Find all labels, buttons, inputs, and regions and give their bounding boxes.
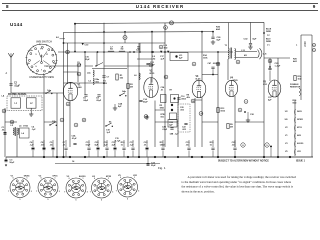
capacitor C7 [64, 147, 67, 149]
wire horizontal [5, 121, 17, 123]
capacitor R15 [211, 147, 214, 149]
terminal 9 [238, 108, 242, 112]
svg-text:8Ω: 8Ω [110, 49, 113, 51]
frame aerial dashed box [7, 96, 42, 111]
ground below L2 [30, 112, 32, 114]
svg-text:5: 5 [48, 199, 49, 201]
junction dot bus1 right [263, 32, 265, 34]
capacitor C18 [105, 147, 108, 149]
svg-text:6LD20: 6LD20 [79, 176, 86, 178]
wire horizontal [195, 99, 202, 101]
capacitor C4 [32, 148, 35, 149]
svg-text:7: 7 [36, 191, 37, 193]
diode mark 2 [167, 51, 169, 53]
svg-text:140Ω: 140Ω [160, 143, 165, 146]
screen feed wire [64, 42, 166, 44]
svg-text:1: 1 [82, 178, 83, 180]
resistor R13 [217, 108, 219, 113]
terminal 12 [10, 120, 14, 124]
capacitor C13 [146, 62, 149, 64]
grid boxes V3 [161, 95, 167, 103]
capacitor C17 [131, 147, 134, 149]
terminal 1b [244, 100, 248, 104]
terminal 1b v1 [77, 72, 81, 76]
svg-text:0: 0 [120, 177, 121, 179]
svg-text:U144: U144 [10, 22, 23, 27]
switch S1a arm [45, 93, 46, 94]
svg-text:A prevalent volt meter was use: A prevalent volt meter was used for taki… [188, 175, 297, 179]
svg-text:2Ω: 2Ω [153, 58, 156, 60]
mains terminal 2 [312, 43, 315, 46]
terminal 13 [216, 62, 220, 66]
capacitor C7 [102, 75, 105, 77]
wire grid elbow [104, 65, 150, 67]
diode mark 1 [160, 51, 162, 53]
svg-text:50pF: 50pF [143, 101, 148, 103]
valve V3 [192, 80, 206, 98]
dial lamp 2 [123, 36, 127, 40]
svg-text:9: 9 [313, 4, 316, 9]
svg-text:0: 0 [13, 178, 14, 180]
svg-text:0: 0 [69, 178, 70, 180]
valve base diagram V1 [10, 178, 30, 198]
wire osc link [137, 58, 152, 60]
terminal 4b [164, 26, 168, 30]
wire vertical [234, 96, 236, 147]
wire vertical [84, 52, 86, 95]
wire vertical [4, 108, 6, 157]
svg-text:7: 7 [41, 70, 42, 72]
capacitor C16 [177, 97, 180, 99]
valve base diagram V4 [92, 178, 112, 198]
svg-text:1: 1 [26, 178, 27, 180]
wire horizontal [301, 34, 312, 36]
wire vertical [217, 52, 219, 157]
wire vertical [151, 32, 153, 83]
valve base diagram V5 [118, 177, 138, 197]
svg-text:to the medium wave band and op: to the medium wave band and operating un… [182, 179, 292, 184]
coil L7 [108, 51, 114, 52]
wire horizontal [155, 109, 165, 111]
capacitor C26 8uF [212, 31, 214, 37]
capacitor C2 [9, 83, 12, 85]
valve V1 [63, 82, 77, 100]
svg-text:SPKR: SPKR [297, 119, 303, 121]
wire vertical [63, 43, 65, 157]
box L4 [20, 128, 30, 138]
switch arm 14a2 [95, 65, 96, 66]
svg-text:175Ω: 175Ω [23, 126, 28, 128]
resistor R14 [294, 76, 296, 81]
wire vertical [227, 59, 229, 80]
wire vertical [164, 23, 166, 147]
ground mid [114, 106, 116, 108]
wire vertical [277, 58, 279, 157]
switch contacts [52, 60, 54, 62]
svg-text:W/B SWITCH: W/B SWITCH [36, 40, 52, 44]
wire vertical [154, 101, 156, 148]
svg-text:240V: 240V [297, 110, 302, 113]
svg-text:3: 3 [112, 191, 113, 193]
svg-text:WIRE: WIRE [266, 41, 272, 43]
svg-text:11: 11 [46, 54, 48, 56]
svg-text:3: 3 [31, 191, 32, 193]
terminal 6c [149, 63, 153, 67]
wire vertical [96, 52, 98, 66]
wire L2 to ground [30, 108, 32, 112]
svg-text:5: 5 [127, 199, 128, 201]
svg-text:60Ω: 60Ω [293, 102, 297, 104]
wire vertical [194, 98, 196, 147]
svg-text:1MΩ: 1MΩ [160, 107, 165, 109]
wire horizontal [155, 121, 178, 123]
terminal 7 [199, 112, 203, 116]
capacitor R10 [122, 147, 125, 149]
terminal 16 [66, 50, 70, 54]
coils L3 L4 [13, 128, 14, 135]
wire vertical [43, 75, 45, 151]
wire vertical [103, 23, 105, 147]
wire vertical [311, 35, 313, 157]
svg-text:S3: S3 [32, 72, 34, 74]
coil L4a [93, 70, 94, 77]
switch S4a arm [119, 95, 120, 96]
component row wire [58, 51, 233, 53]
wire horizontal [44, 121, 57, 123]
svg-text:ISSUE 1: ISSUE 1 [296, 160, 306, 162]
wavechange switch circle S1 [26, 44, 56, 74]
heater wire [55, 163, 160, 165]
svg-text:6F15: 6F15 [53, 176, 59, 178]
coil L8 [119, 51, 125, 52]
capacitor C23 [146, 148, 149, 149]
svg-text:17: 17 [40, 56, 42, 58]
wire horizontal [85, 65, 93, 67]
svg-text:3: 3 [138, 190, 139, 192]
terminal 15 [144, 115, 148, 119]
svg-text:.01µF: .01µF [162, 129, 168, 131]
svg-text:0: 0 [94, 178, 95, 180]
wire vertical [177, 97, 179, 147]
svg-text:6LD1: 6LD1 [196, 79, 202, 81]
capacitor mid stack [170, 127, 173, 129]
resistor R7 box [170, 113, 177, 120]
valve base diagram V2 [38, 178, 58, 198]
wire vertical [69, 101, 71, 148]
wire horizontal [202, 74, 218, 76]
svg-text:UNDERNEATH VIEW: UNDERNEATH VIEW [29, 75, 54, 79]
svg-text:shown in the m.w. position.: shown in the m.w. position. [182, 189, 215, 193]
capacitor C8 [97, 94, 100, 96]
wire bus1 drop left [74, 23, 76, 52]
wire horizontal [202, 121, 218, 123]
svg-text:8Ω: 8Ω [121, 49, 124, 51]
svg-text:0: 0 [41, 178, 42, 180]
svg-text:50pF: 50pF [86, 144, 91, 146]
valve V5 rectifier [268, 80, 281, 97]
wire V5 anode [269, 58, 271, 67]
svg-text:6P25: 6P25 [106, 176, 112, 178]
wire vertical [56, 93, 58, 157]
svg-text:6K8G: 6K8G [24, 176, 30, 178]
wire vertical [263, 22, 265, 157]
capacitor C22 [184, 122, 187, 124]
svg-text:.01µF: .01µF [14, 85, 21, 87]
svg-text:1+1µF: 1+1µF [275, 66, 282, 68]
svg-text:4Ω: 4Ω [244, 54, 247, 57]
diode dots [171, 104, 173, 106]
wire drop x202 [201, 32, 203, 81]
svg-text:.01µF: .01µF [72, 138, 78, 140]
capacitor C15 [114, 148, 117, 149]
svg-text:8µF: 8µF [217, 40, 221, 42]
oscillator coil L6 [139, 73, 140, 80]
smoothing can box [170, 53, 188, 61]
chassis bus wire [6, 156, 313, 158]
wire vertical [127, 52, 129, 147]
dial lamp on bus1 [170, 21, 174, 25]
wire bus2 drop left [63, 32, 65, 43]
svg-text:6LD20: 6LD20 [297, 143, 304, 145]
switch S1b arm [49, 124, 50, 125]
svg-text:U144 RECEIVER: U144 RECEIVER [136, 4, 184, 9]
svg-text:1: 1 [134, 177, 135, 179]
svg-text:7: 7 [64, 191, 65, 193]
svg-text:5: 5 [35, 54, 36, 56]
resistor R1 [116, 74, 118, 80]
capacitor C29 [269, 66, 271, 68]
wire vertical [201, 97, 203, 147]
page header rule bottom [2, 9, 318, 11]
svg-text:6F15: 6F15 [150, 73, 156, 75]
descriptive paragraph [182, 175, 297, 193]
page header rule top [2, 2, 318, 4]
capacitor C14 [139, 99, 142, 101]
output terminal circled right [265, 143, 269, 147]
ground V2 [146, 115, 148, 117]
svg-text:50µF: 50µF [10, 162, 16, 164]
svg-text:6F15: 6F15 [297, 127, 303, 129]
svg-text:P1: P1 [40, 49, 42, 51]
HT bus 2 wire [64, 31, 214, 34]
output terminal circled left [241, 143, 245, 147]
svg-text:SUBJECT TO ALTERATION WITHOUT: SUBJECT TO ALTERATION WITHOUT NOTICE [218, 159, 269, 162]
svg-text:4kΩ: 4kΩ [216, 28, 220, 31]
speaker [258, 50, 260, 59]
capacitor C47 [211, 66, 214, 68]
svg-text:(+): (+) [267, 34, 270, 36]
wire vertical [67, 43, 69, 84]
capacitor C1 [4, 132, 7, 133]
svg-text:.05µF: .05µF [96, 100, 102, 102]
terminal 17 [82, 118, 86, 122]
capacitor C30 gnd [247, 118, 249, 120]
svg-text:5: 5 [20, 199, 21, 201]
valve base diagram V3 [66, 178, 86, 198]
svg-text:8µF: 8µF [253, 39, 257, 41]
svg-text:1: 1 [54, 178, 55, 180]
svg-text:25µF: 25µF [85, 59, 90, 61]
mains terminal 1 [312, 48, 315, 51]
valve V2 [144, 78, 158, 98]
coil L5 [93, 78, 94, 85]
wire vertical [77, 66, 79, 82]
svg-text:30Ω: 30Ω [164, 47, 168, 49]
wire horizontal [235, 121, 264, 123]
svg-text:(−): (−) [267, 44, 270, 46]
capacitor C8 [43, 148, 46, 149]
svg-text:2: 2 [46, 66, 47, 68]
svg-text:8: 8 [6, 4, 9, 9]
svg-text:7: 7 [90, 191, 91, 193]
wire horizontal [64, 71, 79, 73]
svg-text:.0005µF: .0005µF [213, 63, 221, 65]
coil L1 box [11, 98, 21, 108]
junction dots feed row [103, 51, 105, 53]
terminal 2 [60, 118, 64, 122]
svg-text:S1c: S1c [48, 72, 51, 74]
svg-text:25µF: 25µF [151, 165, 156, 167]
aerial A [10, 58, 12, 94]
terminal 3 [74, 123, 78, 127]
wire horizontal [44, 65, 78, 67]
terminal 10 [268, 59, 272, 63]
terminal 8 [236, 60, 240, 64]
speaker leads [236, 51, 257, 53]
svg-text:240V: 240V [304, 41, 307, 47]
svg-text:14B: 14B [170, 133, 174, 136]
HT bus top wire [75, 22, 264, 23]
capacitor C9 [52, 148, 55, 149]
box C28 [168, 120, 177, 128]
capacitor C24 [147, 163, 150, 164]
wire horizontal [264, 57, 290, 59]
capacitor C13 [87, 147, 90, 149]
valve V4 [225, 80, 237, 96]
terminal 4 [66, 102, 70, 106]
coil L2 box [27, 98, 37, 108]
transformer T1 [228, 23, 230, 49]
capacitor C20 [97, 148, 100, 149]
terminal 6 [192, 62, 196, 66]
screen can dashed box [178, 104, 190, 132]
svg-text:1: 1 [108, 178, 109, 180]
svg-text:6P25: 6P25 [232, 80, 238, 82]
switch S4 arm [105, 125, 106, 126]
wire vertical [138, 43, 140, 157]
svg-text:2M: 2M [130, 86, 133, 88]
resistor R3 [127, 84, 129, 89]
capacitor R11 [161, 147, 164, 149]
svg-text:WIRE: WIRE [266, 31, 272, 33]
svg-text:7: 7 [8, 191, 9, 193]
svg-text:9: 9 [35, 66, 36, 68]
svg-text:1kΩ: 1kΩ [298, 78, 302, 80]
wire vertical [294, 100, 296, 156]
capacitor C25 [233, 147, 236, 149]
wire vertical [16, 128, 18, 157]
svg-text:7: 7 [116, 190, 117, 192]
svg-text:2M: 2M [230, 126, 233, 128]
resistor R9 [227, 124, 229, 129]
svg-text:4kΩ: 4kΩ [293, 60, 297, 63]
capacitor C6 [84, 94, 87, 96]
svg-text:3: 3 [59, 191, 60, 193]
svg-text:Fig. 1: Fig. 1 [158, 166, 166, 170]
terminal 6b [159, 45, 163, 49]
wire elbow2 [92, 68, 127, 70]
terminal 11b [2, 109, 6, 113]
terminal 1 [77, 63, 81, 67]
terminal 5 [164, 75, 168, 79]
svg-text:5: 5 [76, 200, 77, 202]
wire vertical [300, 35, 302, 100]
capacitor C19 [187, 147, 190, 149]
wire horizontal [64, 82, 105, 84]
capacitor C32 8uF [250, 22, 252, 43]
svg-text:3: 3 [87, 191, 88, 193]
svg-text:.04µF: .04µF [83, 99, 89, 102]
wire aerial row [11, 92, 63, 94]
bus junction dots [43, 156, 45, 158]
capacitor C3 50uF [5, 157, 7, 160]
svg-text:5: 5 [101, 200, 102, 202]
terminal 10b [191, 99, 195, 103]
